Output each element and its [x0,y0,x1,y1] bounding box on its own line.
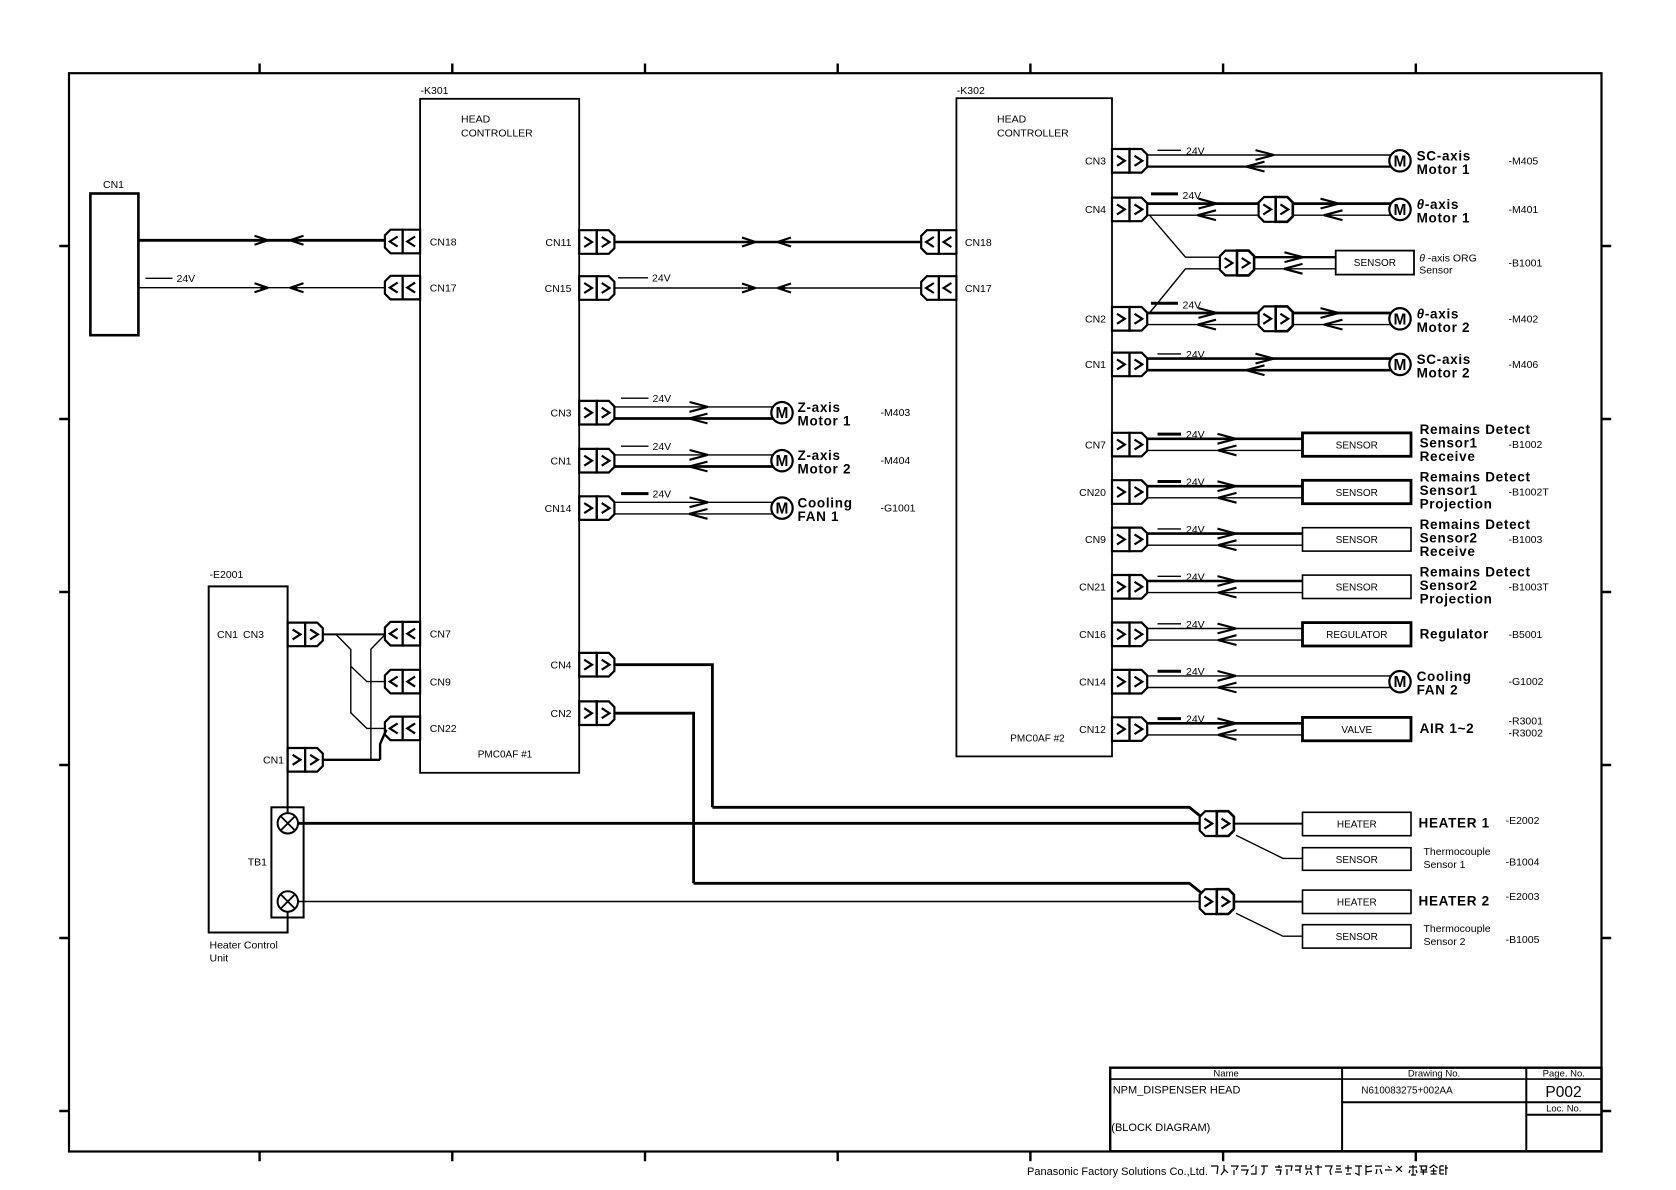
svg-text:CN1: CN1 [1085,359,1106,371]
svg-text:Motor 2: Motor 2 [798,462,852,477]
motor -G1001 Cooling FAN 1 (K301) [621,489,671,501]
svg-text:HEATER: HEATER [1337,897,1377,908]
motor M401 theta-axis Motor 1 [1147,190,1538,226]
svg-text:Sensor 2: Sensor 2 [1424,936,1466,948]
svg-text:CN1: CN1 [103,179,124,191]
sensor B1005 Thermocouple Sensor 2 [1236,913,1540,948]
connector CN16 (K302 output) [1079,623,1147,647]
svg-text:CONTROLLER: CONTROLLER [461,128,533,140]
wire K301 CN11 to K302 CN18 [615,238,922,247]
motor G1002 Cooling FAN 2 [1147,666,1543,698]
svg-text:24V: 24V [177,273,196,285]
connector CN3 (K301 output) [550,401,614,425]
regulator B5001 [1147,619,1542,646]
sensor B1001 theta-axis ORG Sensor [1220,251,1543,277]
terminal block TB1 [248,807,304,917]
motor M402 theta-axis Motor 2 [1147,299,1538,335]
svg-text:-K302: -K302 [957,85,985,97]
svg-text:CN9: CN9 [1085,534,1106,546]
svg-text:24V: 24V [653,441,672,453]
connector CN1 (K302 output) [1085,353,1147,377]
label title block [1110,1068,1601,1152]
svg-text:CONTROLLER: CONTROLLER [997,128,1069,140]
svg-text:HEAD: HEAD [997,114,1027,126]
motor M406 SC-axis Motor 2 [1147,349,1538,381]
svg-text:Receive: Receive [1420,544,1476,559]
svg-text:CN3: CN3 [550,408,571,420]
motor -M404 Z-axis Motor 2 (K301) [621,441,671,453]
svg-text:Thermocouple: Thermocouple [1424,923,1491,935]
connector CN2 (K301 output) [550,701,614,725]
svg-text:Unit: Unit [210,953,229,965]
svg-text:24V: 24V [1183,299,1202,311]
svg-text:-B1004: -B1004 [1506,857,1540,869]
svg-text:NPM_DISPENSER HEAD: NPM_DISPENSER HEAD [1113,1085,1241,1097]
svg-text:REGULATOR: REGULATOR [1326,630,1387,641]
svg-text:θ -axis ORG: θ -axis ORG [1419,253,1477,265]
svg-text:-M402: -M402 [1509,313,1539,325]
svg-text:-E2003: -E2003 [1506,891,1540,903]
svg-text:CN17: CN17 [965,283,992,295]
svg-text:SENSOR: SENSOR [1336,932,1378,943]
connector CN11 (K301 output) [545,230,614,254]
connector CN12 (K302 output) [1079,717,1147,741]
block K301 HEAD CONTROLLER (PMC0AF #1) [420,85,579,773]
svg-text:-M405: -M405 [1509,155,1539,167]
label footer Panasonic Factory Solutions company name [1027,1165,1448,1178]
motor M405 SC-axis Motor 1 [1147,145,1538,177]
terminal TB1-2 [278,891,298,911]
block K302 HEAD CONTROLLER (PMC0AF #2) [956,85,1112,756]
connector CN17 (K301 input) [385,276,457,300]
svg-text:-B1005: -B1005 [1506,934,1540,946]
svg-text:-R3001: -R3001 [1509,716,1544,728]
svg-text:N610083275+002AA: N610083275+002AA [1361,1086,1453,1097]
svg-text:FAN 2: FAN 2 [1417,683,1459,698]
connector CN4 (K302 output) [1085,198,1147,222]
connector CN9 (K301 input) [385,670,451,694]
svg-text:Motor 1: Motor 1 [1417,210,1471,225]
svg-text:CN1: CN1 [217,629,238,641]
svg-text:-G1001: -G1001 [881,503,916,515]
node CN1 input block (left) [90,179,138,335]
wire E2001 CN1 to K301 CN22 [323,730,387,760]
svg-text:-B1002: -B1002 [1509,439,1543,451]
svg-text:-E2001: -E2001 [210,569,244,581]
svg-text:Sensor: Sensor [1419,265,1453,277]
connector CN20 (K302 output) [1079,480,1147,504]
connector CN18 (K302 input) [921,230,992,254]
svg-text:AIR 1~2: AIR 1~2 [1420,721,1475,736]
svg-text:Heater Control: Heater Control [210,940,278,952]
connector CN4 (K301 output) [550,653,614,677]
svg-text:24V: 24V [1183,190,1202,202]
connector CN18 (K301 input) [385,230,457,254]
connector CN2 (K302 output) [1085,307,1147,331]
svg-text:CN9: CN9 [430,676,451,688]
svg-text:CN4: CN4 [1085,204,1106,216]
block E2001 Heater Control Unit [209,569,288,965]
wire CN7 node down to E2001 CN1 wire [371,635,385,760]
svg-text:-E2002: -E2002 [1506,815,1540,827]
svg-text:Sensor 1: Sensor 1 [1424,859,1466,871]
svg-text:HEATER 2: HEATER 2 [1419,893,1490,908]
svg-text:Motor 2: Motor 2 [1417,320,1471,335]
sensor B1003 Remains Detect Sensor2 Receive [1147,517,1542,559]
svg-text:SENSOR: SENSOR [1354,258,1396,269]
svg-text:SENSOR: SENSOR [1336,583,1378,594]
svg-text:CN1: CN1 [263,755,284,767]
svg-text:(BLOCK DIAGRAM): (BLOCK DIAGRAM) [1111,1122,1210,1134]
sensor B1003T Remains Detect Sensor2 Projection [1147,564,1549,606]
svg-text:CN16: CN16 [1079,629,1106,641]
svg-text:-K301: -K301 [421,85,449,97]
svg-text:CN22: CN22 [430,723,457,735]
terminal TB1-1 [278,813,298,833]
svg-text:CN7: CN7 [430,629,451,641]
svg-text:TB1: TB1 [248,857,267,869]
connector CN7 (K301 input) [385,622,451,646]
svg-text:CN12: CN12 [1079,724,1106,736]
svg-text:CN14: CN14 [1079,677,1106,689]
svg-text:SENSOR: SENSOR [1336,488,1378,499]
sensor B1002 Remains Detect Sensor1 Receive [1147,422,1542,464]
connector CN17 (K302 input) [921,276,992,300]
svg-text:24V: 24V [652,273,671,285]
wire branch to K301 CN9 [351,666,385,681]
svg-text:Receive: Receive [1420,449,1476,464]
svg-text:-B1001: -B1001 [1509,258,1543,270]
svg-text:-M403: -M403 [881,407,911,419]
svg-text:-G1002: -G1002 [1509,676,1544,688]
connector CN14 (K301 output) [545,496,615,520]
wire TB1-2 to heater-2 connector [298,901,1200,903]
connector CN14 (K302 output) [1079,670,1147,694]
svg-text:24V: 24V [653,489,672,501]
wire TB1-1 to heater-1 connector [298,822,1200,825]
connector CN21 (K302 output) [1079,575,1147,599]
svg-text:CN11: CN11 [545,237,571,249]
svg-text:Page. No.: Page. No. [1543,1069,1585,1080]
svg-text:CN20: CN20 [1079,487,1106,499]
wire K301 CN4 to heater-1 connector [615,665,713,808]
heater E2002 HEATER 1 [712,807,1539,836]
svg-text:CN3: CN3 [243,629,264,641]
svg-text:Motor 2: Motor 2 [1417,365,1471,380]
wire branch to K301 CN22 [336,634,385,728]
svg-text:PMC0AF #2: PMC0AF #2 [1010,734,1065,745]
connector CN1 (K301 output) [550,449,614,473]
svg-text:Panasonic Factory Solutions Co: Panasonic Factory Solutions Co.,Ltd. [1027,1166,1208,1178]
wire K301 CN15 to K302 CN17 (24V) [615,273,922,293]
wire branch CN4/CN2 to ORG sensor connector [1150,215,1221,313]
svg-text:CN2: CN2 [550,708,571,720]
svg-text:SENSOR: SENSOR [1336,535,1378,546]
valve R3001/R3002 AIR 1~2 [1147,714,1543,741]
sensor B1002T Remains Detect Sensor1 Projection [1147,470,1549,512]
svg-text:CN18: CN18 [965,237,992,249]
svg-text:CN14: CN14 [545,503,572,515]
svg-text:CN7: CN7 [1085,439,1106,451]
svg-text:-B1003: -B1003 [1509,534,1543,546]
svg-text:CN17: CN17 [430,282,457,294]
wire E2001 CN3 to K301 CN7 [323,633,385,635]
connector CN9 (K302 output) [1085,528,1147,552]
svg-text:Regulator: Regulator [1420,626,1489,641]
connector CN15 (K301 output) [545,276,615,300]
svg-text:CN15: CN15 [545,283,572,295]
svg-text:HEAD: HEAD [461,114,491,126]
svg-text:SENSOR: SENSOR [1336,855,1378,866]
svg-text:Thermocouple: Thermocouple [1424,846,1491,858]
svg-text:Projection: Projection [1420,591,1493,606]
svg-text:HEATER 1: HEATER 1 [1419,816,1490,831]
svg-text:CN4: CN4 [550,660,571,672]
svg-text:Name: Name [1213,1069,1238,1080]
svg-text:-B1003T: -B1003T [1509,581,1550,593]
svg-text:Motor 1: Motor 1 [798,414,852,429]
connector CN3 (E2001 top output) [288,623,323,647]
svg-text:PMC0AF #1: PMC0AF #1 [478,750,533,761]
svg-text:-M406: -M406 [1509,359,1539,371]
wire K301 CN2 to heater-2 connector [615,713,694,883]
svg-text:Drawing No.: Drawing No. [1408,1069,1460,1080]
svg-text:Motor 1: Motor 1 [1417,162,1471,177]
svg-text:-M404: -M404 [881,455,911,467]
svg-text:CN1: CN1 [550,456,571,468]
svg-text:-B1002T: -B1002T [1509,487,1550,499]
connector CN22 (K301 input) [385,717,457,741]
svg-text:VALVE: VALVE [1341,725,1372,736]
svg-text:CN21: CN21 [1079,582,1106,594]
heater E2003 HEATER 2 [694,883,1540,914]
connector CN3 (K302 output) [1085,149,1147,173]
motor -M403 Z-axis Motor 1 (K301) [621,393,671,405]
svg-text:P002: P002 [1545,1084,1581,1101]
connector CN7 (K302 output) [1085,433,1147,457]
svg-text:SENSOR: SENSOR [1336,440,1378,451]
connector CN1 (E2001 bottom output) [288,748,323,772]
svg-text:Loc. No.: Loc. No. [1546,1104,1581,1115]
svg-text:CN3: CN3 [1085,156,1106,168]
svg-text:-M401: -M401 [1509,204,1539,216]
wire CN1 to K301 CN18 [138,236,384,245]
svg-text:-B5001: -B5001 [1509,629,1543,641]
sensor B1004 Thermocouple Sensor 1 [1236,835,1540,871]
svg-text:HEATER: HEATER [1337,820,1377,831]
svg-text:Projection: Projection [1420,497,1493,512]
svg-text:24V: 24V [653,393,672,405]
svg-text:CN2: CN2 [1085,314,1106,326]
wire CN1 to K301 CN17 (24V) [138,273,384,292]
svg-text:CN18: CN18 [430,236,457,248]
svg-text:-R3002: -R3002 [1509,728,1544,740]
svg-text:FAN 1: FAN 1 [798,509,840,524]
